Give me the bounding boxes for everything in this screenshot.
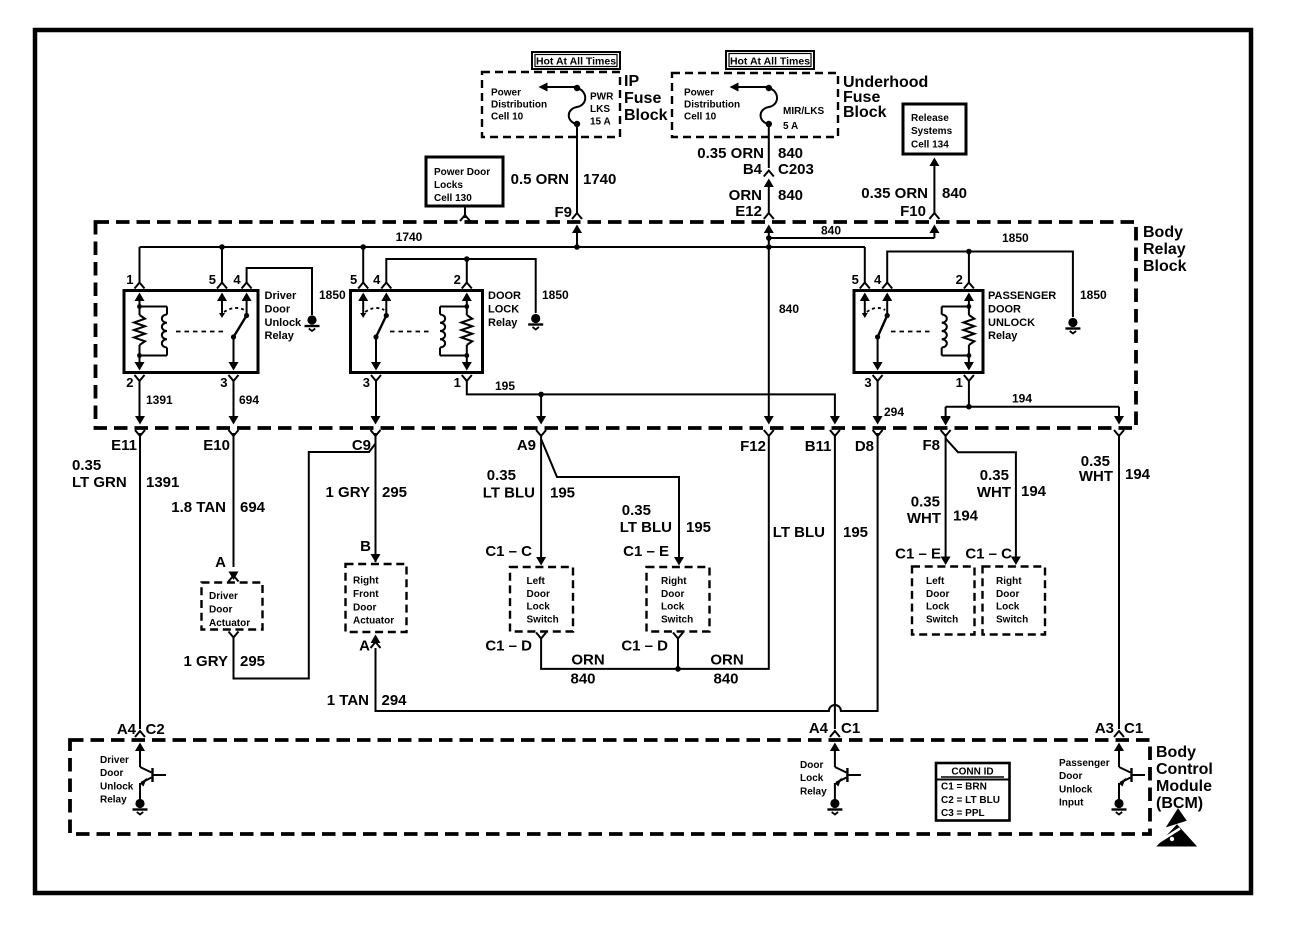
svg-text:195: 195 [686, 519, 711, 536]
relay K1 pin 2 [135, 362, 145, 371]
svg-text:ORN: ORN [729, 187, 762, 204]
svg-text:F9: F9 [554, 204, 572, 221]
svg-text:(BCM): (BCM) [1156, 795, 1203, 812]
Body Control Module dashed box [70, 740, 1150, 834]
terminal D8 [873, 416, 883, 425]
svg-text:ORN: ORN [710, 652, 743, 669]
svg-text:840: 840 [778, 187, 803, 204]
svg-text:Cell 10: Cell 10 [684, 112, 717, 123]
svg-text:4: 4 [373, 272, 381, 287]
terminal F10 [929, 213, 939, 219]
svg-text:0.35 ORN: 0.35 ORN [861, 185, 928, 202]
svg-text:Power: Power [684, 88, 714, 99]
svg-text:195: 195 [843, 524, 868, 541]
relay K2 pin 3 [371, 362, 381, 371]
svg-text:Block: Block [1143, 258, 1187, 275]
ground G1850 (K3) [1068, 318, 1077, 327]
svg-text:Hot At All Times: Hot At All Times [730, 56, 810, 68]
arrow to power distribution (IP) [546, 86, 577, 88]
note box Power Door Locks Cell 130 [426, 157, 503, 206]
svg-text:Locks: Locks [434, 180, 463, 191]
svg-text:Door: Door [100, 768, 123, 779]
relay K3 pin 1 wire 194 [964, 362, 974, 371]
svg-text:C1 – D: C1 – D [621, 638, 668, 655]
svg-text:0.35: 0.35 [487, 467, 516, 484]
fuse PWR LKS 15A [574, 85, 580, 91]
wire 0.5 ORN 1740 from IP fuse to F9 [576, 124, 578, 213]
svg-text:WHT: WHT [907, 510, 941, 527]
junction ORN 840 [675, 666, 681, 672]
svg-text:840: 840 [942, 185, 967, 202]
label Hot At All Times (IP) [532, 52, 620, 69]
svg-text:Passenger: Passenger [1059, 758, 1110, 769]
svg-text:A4: A4 [809, 720, 829, 737]
svg-text:Door: Door [800, 760, 823, 771]
svg-text:Body: Body [1143, 224, 1183, 241]
svg-text:Unlock: Unlock [1059, 784, 1093, 795]
Driver Door Actuator dashed box [202, 583, 263, 630]
underhood fuse block dashed box [672, 73, 838, 137]
terminal E11 [135, 416, 145, 425]
svg-text:Module: Module [1156, 778, 1212, 795]
relay K1 pin 3 [229, 362, 239, 371]
svg-text:3: 3 [220, 375, 227, 390]
label Hot At All Times (Underhood) [726, 51, 814, 69]
svg-text:295: 295 [382, 484, 407, 501]
wire from power door locks note to body relay block [464, 206, 466, 218]
relay K3 Passenger Door Unlock Relay box [854, 291, 983, 373]
wire 0.35 LT BLU 195 from A9 to left door lock switch [540, 434, 542, 562]
svg-text:15 A: 15 A [590, 117, 611, 128]
relay K2 pin 2 wire [466, 259, 468, 283]
svg-text:A9: A9 [517, 437, 536, 454]
relay K1 coil [139, 300, 141, 316]
wire 1 TAN 294 from actuator to D8 wire [371, 635, 381, 644]
svg-text:C2 = LT BLU: C2 = LT BLU [941, 795, 1000, 806]
relay K3 pin 5 [769, 246, 865, 248]
svg-text:Switch: Switch [926, 614, 958, 625]
fuse MIR/LKS 5A [766, 85, 772, 91]
junction A9 on 195 wire [538, 392, 544, 398]
svg-text:ORN: ORN [571, 652, 604, 669]
svg-text:WHT: WHT [977, 484, 1011, 501]
relay K3 pin 2 wire [968, 252, 970, 283]
wire F10 stub [933, 233, 935, 238]
svg-text:A3: A3 [1095, 720, 1114, 737]
junction E12 at 1740 bus [766, 244, 772, 250]
svg-text:1.8 TAN: 1.8 TAN [171, 499, 226, 516]
terminal A9 [536, 416, 546, 425]
Right Door Lock Switch dashed box (A9) [647, 567, 710, 632]
svg-text:B: B [360, 538, 371, 555]
relay K1 pin 5 [221, 247, 223, 283]
svg-text:295: 295 [240, 653, 265, 670]
svg-text:Actuator: Actuator [209, 618, 250, 629]
svg-text:694: 694 [239, 393, 259, 407]
relay K2 coil [466, 300, 468, 316]
relay K2 pin 5 [362, 247, 364, 283]
svg-text:Door: Door [527, 589, 550, 600]
svg-text:Right: Right [661, 576, 687, 587]
note box Release Systems Cell 134 [903, 104, 966, 154]
svg-text:3: 3 [864, 375, 871, 390]
svg-text:Lock: Lock [527, 602, 551, 613]
svg-text:Relay: Relay [800, 786, 827, 797]
terminal E10 [229, 416, 239, 425]
svg-text:C1 – C: C1 – C [485, 543, 532, 560]
CONN ID table [936, 763, 1010, 821]
svg-text:194: 194 [1012, 392, 1032, 406]
svg-text:Left: Left [926, 576, 945, 587]
svg-text:1740: 1740 [583, 171, 616, 188]
svg-text:Relay: Relay [488, 317, 518, 329]
relay K2 actuation dashed link [390, 331, 432, 333]
svg-text:Lock: Lock [661, 602, 685, 613]
svg-text:Hot At All Times: Hot At All Times [536, 56, 616, 68]
terminal F9 [572, 213, 582, 219]
svg-text:Distribution: Distribution [684, 100, 740, 111]
svg-text:Cell 130: Cell 130 [434, 193, 472, 204]
svg-text:Switch: Switch [996, 614, 1028, 625]
svg-text:Fuse: Fuse [624, 90, 661, 107]
svg-text:Body: Body [1156, 744, 1196, 761]
relay K3 switch [864, 300, 866, 316]
svg-text:C1: C1 [841, 720, 860, 737]
svg-text:LT BLU: LT BLU [773, 524, 825, 541]
svg-text:194: 194 [1021, 483, 1047, 500]
svg-text:Lock: Lock [996, 602, 1020, 613]
svg-text:Relay: Relay [988, 330, 1018, 342]
svg-text:Door: Door [209, 604, 232, 615]
transistor Q3 passenger door unlock input [1114, 731, 1124, 737]
terminal E12 [764, 213, 774, 219]
svg-text:Block: Block [624, 107, 668, 124]
svg-text:Door: Door [353, 602, 376, 613]
svg-text:2: 2 [454, 272, 461, 287]
svg-text:1391: 1391 [146, 474, 179, 491]
terminal F8 [941, 416, 951, 425]
svg-text:C1 – D: C1 – D [485, 638, 532, 655]
svg-text:1: 1 [956, 375, 963, 390]
relay K2 pin 1 wire 195 [462, 362, 472, 371]
svg-text:1850: 1850 [1080, 288, 1107, 302]
svg-text:840: 840 [570, 671, 595, 688]
svg-text:1850: 1850 [542, 288, 569, 302]
wire ORN 840 bus from switches to F12 [536, 633, 546, 639]
svg-text:Right: Right [353, 576, 379, 587]
svg-text:DOOR: DOOR [488, 290, 521, 302]
svg-text:840: 840 [713, 671, 738, 688]
Right Door Lock Switch dashed box (F8) [983, 567, 1046, 635]
svg-text:194: 194 [953, 508, 979, 525]
svg-text:Actuator: Actuator [353, 616, 394, 627]
svg-text:1 GRY: 1 GRY [184, 653, 228, 670]
svg-text:F12: F12 [740, 438, 766, 455]
terminal (unnamed right) [1114, 416, 1124, 425]
svg-text:1: 1 [454, 375, 461, 390]
svg-text:195: 195 [550, 485, 575, 502]
svg-text:1391: 1391 [146, 393, 173, 407]
wire LT BLU 195 from B11 to BCM [834, 434, 836, 729]
svg-text:LKS: LKS [590, 104, 610, 115]
svg-text:Lock: Lock [926, 602, 950, 613]
svg-text:5: 5 [852, 272, 859, 287]
arrow to power distribution (Underhood) [737, 86, 769, 88]
relay K2 Door Lock Relay box [351, 291, 483, 373]
svg-text:Unlock: Unlock [265, 317, 303, 329]
wire 0.35 ORN 840 from underhood fuse to connector C203 [768, 124, 770, 168]
svg-text:Input: Input [1059, 798, 1084, 809]
svg-text:3: 3 [363, 375, 370, 390]
svg-text:Front: Front [353, 589, 379, 600]
svg-text:0.5 ORN: 0.5 ORN [511, 171, 569, 188]
svg-text:0.35: 0.35 [980, 467, 1009, 484]
svg-text:0.35: 0.35 [911, 494, 940, 511]
svg-text:1 TAN: 1 TAN [327, 692, 369, 709]
wire 1 GRY 295 from driver actuator loop to C9 branch [229, 632, 239, 638]
svg-text:C1 – C: C1 – C [965, 546, 1012, 563]
relay K1 Driver Door Unlock Relay box [124, 291, 258, 373]
terminal F12 [764, 416, 774, 425]
svg-text:Distribution: Distribution [491, 100, 547, 111]
Left Door Lock Switch dashed box (F8) [912, 567, 975, 635]
Left Door Lock Switch dashed box (A9) [510, 567, 573, 632]
svg-text:Switch: Switch [527, 614, 559, 625]
svg-text:Control: Control [1156, 761, 1213, 778]
svg-text:C3 = PPL: C3 = PPL [941, 808, 985, 819]
wire 0.35 WHT 194 to BCM passenger input [1118, 434, 1120, 729]
relay K3 pin 4 wire to ground 1850 [887, 252, 1073, 318]
terminal B11 [830, 416, 840, 425]
svg-text:Relay: Relay [1143, 241, 1186, 258]
svg-text:MIR/LKS: MIR/LKS [783, 106, 824, 117]
svg-text:UNLOCK: UNLOCK [988, 317, 1035, 329]
svg-text:E12: E12 [735, 203, 762, 220]
relay K1 switch [221, 300, 223, 316]
IP fuse block dashed box [482, 72, 620, 137]
relay K3 actuation dashed link [891, 331, 933, 333]
svg-text:C1 = BRN: C1 = BRN [941, 782, 987, 793]
svg-text:840: 840 [778, 145, 803, 162]
svg-text:1 GRY: 1 GRY [326, 484, 370, 501]
transistor Q1 driver door unlock relay driver [135, 731, 145, 737]
svg-text:Relay: Relay [265, 330, 295, 342]
wire branch A9 to right door lock switch [541, 439, 679, 562]
svg-text:Cell 10: Cell 10 [491, 112, 524, 123]
svg-text:5 A: 5 A [783, 121, 798, 132]
svg-text:5: 5 [209, 272, 216, 287]
svg-text:Systems: Systems [911, 126, 953, 137]
svg-text:0.35: 0.35 [72, 457, 101, 474]
svg-text:Right: Right [996, 576, 1022, 587]
svg-text:Driver: Driver [265, 290, 298, 302]
svg-text:D8: D8 [855, 438, 874, 455]
svg-text:F10: F10 [900, 203, 926, 220]
svg-text:840: 840 [779, 302, 799, 316]
svg-text:840: 840 [821, 224, 841, 238]
svg-text:PWR: PWR [590, 92, 614, 103]
svg-text:Door: Door [996, 589, 1019, 600]
svg-text:Release: Release [911, 113, 949, 124]
bus wire 840 to F10 [769, 237, 935, 239]
svg-text:C1: C1 [1124, 720, 1143, 737]
terminal C9 [371, 416, 381, 425]
Right Front Door Actuator dashed box [346, 564, 407, 632]
svg-text:Driver: Driver [209, 591, 238, 602]
svg-text:WHT: WHT [1079, 468, 1113, 485]
wire 0.35 ORN 840 to release systems [929, 158, 939, 167]
svg-text:Door: Door [661, 589, 684, 600]
svg-text:0.35 ORN: 0.35 ORN [697, 145, 764, 162]
relay K1 pin 1 [139, 247, 141, 283]
relay K1 actuation dashed link [176, 331, 227, 333]
svg-text:C203: C203 [778, 161, 814, 178]
svg-text:B11: B11 [805, 438, 832, 455]
svg-text:LT BLU: LT BLU [620, 519, 672, 536]
bus wire 1740 inside relay block [140, 246, 865, 248]
svg-text:4: 4 [874, 272, 882, 287]
svg-text:PASSENGER: PASSENGER [988, 290, 1056, 302]
svg-text:Lock: Lock [800, 773, 824, 784]
svg-text:E11: E11 [111, 437, 137, 454]
transistor Q2 door lock relay driver [830, 731, 840, 737]
svg-text:195: 195 [495, 379, 515, 393]
svg-text:Power Door: Power Door [434, 167, 490, 178]
svg-text:294: 294 [884, 405, 904, 419]
svg-text:A: A [215, 554, 226, 571]
svg-text:4: 4 [233, 272, 241, 287]
svg-text:1850: 1850 [1002, 231, 1029, 245]
svg-text:294: 294 [382, 692, 408, 709]
in-line connector B4 C203 [764, 171, 774, 177]
svg-text:IP: IP [624, 73, 639, 90]
relay K2 switch [362, 300, 364, 316]
svg-text:C2: C2 [146, 721, 165, 738]
svg-text:194: 194 [1125, 466, 1151, 483]
svg-text:C1 – E: C1 – E [895, 546, 941, 563]
svg-text:Driver: Driver [100, 755, 129, 766]
svg-text:Left: Left [527, 576, 546, 587]
svg-text:C1 – E: C1 – E [623, 543, 669, 560]
relay K3 coil [968, 300, 970, 316]
svg-text:Door: Door [1059, 771, 1082, 782]
svg-text:Unlock: Unlock [100, 781, 134, 792]
svg-text:5: 5 [350, 272, 357, 287]
svg-text:Power: Power [491, 88, 521, 99]
svg-text:LT GRN: LT GRN [72, 474, 127, 491]
svg-text:A4: A4 [117, 721, 137, 738]
svg-text:0.35: 0.35 [622, 502, 651, 519]
svg-text:Block: Block [843, 104, 887, 121]
svg-text:694: 694 [240, 499, 266, 516]
relay K1 pin 4 wire to ground 1850 [247, 268, 312, 315]
junction F9-bus [574, 244, 580, 250]
svg-text:E10: E10 [203, 437, 230, 454]
svg-text:Cell 134: Cell 134 [911, 139, 949, 150]
svg-text:LOCK: LOCK [488, 303, 519, 315]
svg-text:F8: F8 [922, 437, 940, 454]
svg-text:1740: 1740 [396, 230, 423, 244]
wire E12 840 vertical through relay block to F12 [768, 233, 770, 419]
wire 1 GRY 295 from C9 to right front door actuator [375, 433, 377, 562]
svg-text:LT BLU: LT BLU [483, 485, 535, 502]
svg-text:Door: Door [926, 589, 949, 600]
Body Relay Block dashed box [96, 222, 1137, 428]
svg-text:A: A [359, 638, 370, 655]
svg-text:Door: Door [265, 303, 291, 315]
ground G1850 (K2) [531, 314, 540, 323]
relay K2 pin 4 wire to ground 1850 [386, 259, 535, 313]
svg-text:Relay: Relay [100, 795, 127, 806]
ESD sensitive symbol [1167, 809, 1186, 827]
svg-text:CONN ID: CONN ID [951, 767, 993, 778]
svg-text:DOOR: DOOR [988, 303, 1021, 315]
relay K3 pin 3 wire 294 [873, 362, 883, 371]
svg-text:Switch: Switch [661, 614, 693, 625]
svg-text:1: 1 [126, 272, 133, 287]
svg-text:B4: B4 [743, 161, 763, 178]
wire 0.35 WHT 194 from F8 to left door lock switch [945, 434, 947, 562]
svg-text:2: 2 [126, 375, 133, 390]
wire ORN 840 from C203 to E12 [768, 187, 770, 214]
ground G1850 (K1) [307, 315, 316, 324]
svg-text:1850: 1850 [319, 288, 346, 302]
wire 0.35 LT GRN 1391 from E11 to BCM [139, 433, 141, 729]
wire branch F8 to right door lock switch [946, 439, 1016, 563]
svg-text:2: 2 [956, 272, 963, 287]
wire 1.8 TAN 694 from E10 to driver door actuator [233, 433, 235, 567]
